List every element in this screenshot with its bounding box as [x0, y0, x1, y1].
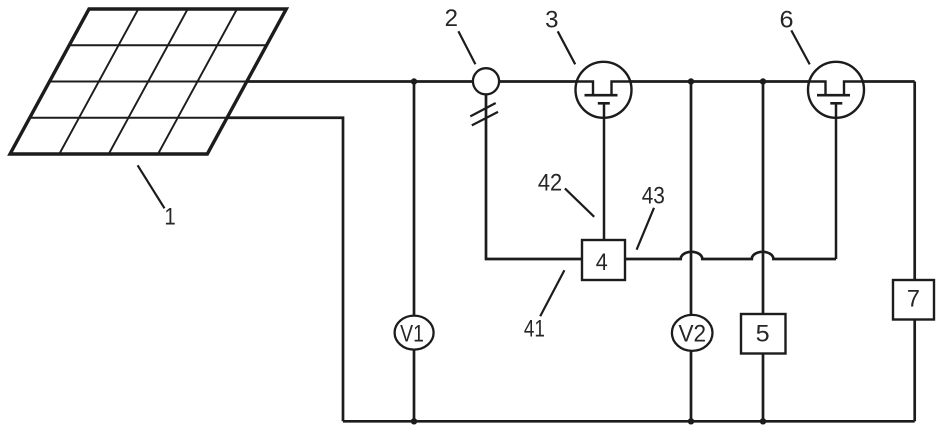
leader line for label 43	[637, 208, 654, 250]
leader line for label 41	[540, 270, 564, 316]
svg-text:7: 7	[907, 285, 920, 312]
svg-text:3: 3	[545, 6, 558, 33]
svg-text:4: 4	[596, 248, 608, 275]
leader line for label 6	[791, 30, 809, 64]
controller box 4	[582, 240, 625, 280]
junction dot (bottom bus / V1)	[411, 418, 417, 424]
junction dot (bottom bus / box 5)	[760, 418, 766, 424]
wire (controller output to transistor 6 gate, with hops)	[625, 252, 836, 259]
svg-text:2: 2	[445, 5, 458, 32]
junction dot (top bus / V1)	[411, 78, 417, 84]
svg-text:5: 5	[756, 321, 770, 347]
transistor U6 (MOSFET 6)	[808, 62, 864, 259]
leader line for label 1	[138, 165, 165, 208]
leader line for label 42	[565, 188, 594, 216]
sensor 2 hatch slashes	[470, 103, 495, 116]
junction dot (bottom bus / V2)	[688, 418, 694, 424]
leader line for label 3	[558, 31, 576, 64]
svg-text:V1: V1	[400, 319, 424, 346]
svg-text:43: 43	[642, 182, 665, 209]
junction dot (top bus / box 5)	[760, 78, 766, 84]
voltmeter V1	[395, 316, 434, 350]
wire (panel lower output)	[227, 118, 343, 422]
solar panel 1	[30, 9, 267, 154]
wire (box 5 branch)	[762, 82, 765, 422]
wire (bottom bus)	[343, 420, 915, 423]
transistor U3 (MOSFET 3)	[576, 62, 632, 240]
leader line for label 2	[458, 31, 475, 64]
svg-text:6: 6	[779, 7, 793, 33]
wire (sensor 2 lead down to controller)	[486, 82, 582, 260]
wire (V2 branch)	[690, 82, 693, 422]
junction dot (top bus / V2)	[688, 78, 694, 84]
wire (right branch to box 7)	[913, 82, 916, 422]
load box 7	[893, 280, 934, 320]
svg-text:V2: V2	[679, 320, 707, 347]
load box 5	[741, 314, 786, 354]
wire (panel + output to top bus)	[247, 80, 915, 83]
current sensor 2	[473, 68, 499, 94]
voltmeter V2	[672, 315, 713, 351]
solar panel 1 outline	[10, 9, 286, 154]
wire (V1 branch)	[413, 82, 416, 422]
svg-text:41: 41	[524, 314, 545, 342]
svg-text:42: 42	[538, 168, 562, 195]
svg-text:1: 1	[164, 203, 175, 230]
